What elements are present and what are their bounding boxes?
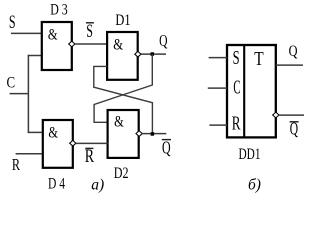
svg-text:D2: D2 [114,165,129,182]
svg-text:&: & [48,27,58,44]
wire R input to DD1 [209,124,227,126]
gate D2 inversion bubble [136,131,142,137]
wire C input [10,93,29,95]
gate D3 NAND body [42,22,72,70]
svg-text:S: S [86,22,93,42]
gate D4 NAND body [43,120,73,168]
svg-text:R: R [232,114,241,135]
wire S-bar from D3 to D1 [75,43,107,45]
svg-text:S: S [9,13,16,33]
node Q-bar label overline [162,139,171,141]
block DD1 inversion bubble [273,112,279,118]
svg-text:R: R [12,155,21,174]
svg-text:&: & [48,124,58,141]
gate D4 inversion bubble [70,140,76,146]
wire C branch to D4 [28,131,43,133]
junction Q-bar node dot [151,132,155,136]
gate D1 NAND body [107,32,138,80]
gate D1 inversion bubble [135,51,141,57]
junction Q node dot [151,52,155,56]
gate D2 NAND body [108,110,139,158]
svg-text:C: C [7,74,16,91]
wire feedback D2-output to D1-input (cross) [94,66,153,133]
block DD1 body [227,45,276,137]
node R-bar label overline [85,147,93,149]
svg-text:а): а) [91,177,104,194]
gate D3 inversion bubble [69,41,75,47]
svg-text:S: S [233,48,240,69]
svg-text:C: C [233,78,240,99]
svg-text:DD1: DD1 [239,146,261,163]
svg-text:&: & [114,114,124,131]
wire C input to DD1 [208,87,227,89]
wire Q output of DD1 [276,64,303,66]
wire S input to DD1 [209,57,227,59]
svg-text:D 3: D 3 [50,2,67,19]
svg-text:Q: Q [162,137,171,157]
node Q-bar label overline (DD1) [290,121,299,123]
svg-text:Q: Q [159,31,167,50]
block DD1 divider [243,44,245,137]
svg-text:б): б) [248,176,261,193]
svg-text:R: R [85,146,95,167]
svg-text:T: T [254,48,263,70]
wire feedback D1-output to D2-input (cross) [94,54,152,122]
wire Q output [141,53,166,55]
wire Q-bar output of DD1 [279,114,304,116]
svg-text:Q: Q [290,119,299,139]
wire Q-bar output [142,133,166,135]
svg-text:D 4: D 4 [48,176,65,193]
svg-text:&: & [113,37,123,54]
wire C vertical bus [27,55,29,133]
wire R-bar from D4 to D2 [76,142,108,144]
node S-bar label overline [86,22,94,24]
wire C branch to D3 [28,55,42,57]
svg-text:D1: D1 [115,12,130,29]
wire S input [11,32,42,34]
wire R input [16,153,43,155]
svg-text:Q: Q [289,43,298,60]
